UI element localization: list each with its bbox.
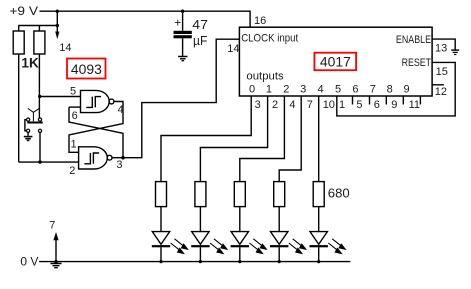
- svg-text:7: 7: [370, 84, 376, 96]
- svg-text:9: 9: [404, 84, 410, 96]
- svg-text:680: 680: [328, 186, 350, 201]
- svg-text:47: 47: [192, 17, 208, 32]
- svg-text:4093: 4093: [71, 61, 102, 77]
- svg-text:16: 16: [254, 15, 266, 27]
- svg-text:3: 3: [255, 99, 261, 111]
- svg-text:0 V: 0 V: [20, 254, 38, 268]
- svg-text:5: 5: [335, 84, 341, 96]
- svg-text:outputs: outputs: [246, 70, 284, 82]
- svg-text:3: 3: [300, 84, 306, 96]
- svg-text:2: 2: [283, 84, 289, 96]
- svg-text:ENABLE: ENABLE: [396, 34, 431, 46]
- svg-text:5: 5: [356, 99, 362, 111]
- svg-text:7: 7: [49, 219, 55, 231]
- svg-text:7: 7: [307, 99, 313, 111]
- svg-text:+9 V: +9 V: [9, 4, 38, 18]
- svg-text:2: 2: [69, 165, 75, 177]
- svg-text:4017: 4017: [320, 54, 351, 70]
- svg-text:8: 8: [387, 84, 393, 96]
- svg-text:+: +: [174, 16, 181, 30]
- svg-text:2: 2: [272, 99, 278, 111]
- svg-text:11: 11: [409, 99, 420, 111]
- svg-text:13: 13: [435, 43, 447, 55]
- svg-text:9: 9: [391, 99, 397, 111]
- svg-text:10: 10: [323, 99, 335, 111]
- svg-text:1: 1: [339, 99, 345, 111]
- svg-text:6: 6: [374, 99, 380, 111]
- svg-text:1: 1: [266, 84, 272, 96]
- svg-text:4: 4: [318, 84, 324, 96]
- svg-text:14: 14: [227, 43, 239, 55]
- svg-text:µF: µF: [193, 33, 207, 48]
- svg-text:4: 4: [289, 99, 295, 111]
- svg-text:6: 6: [352, 84, 358, 96]
- svg-text:1: 1: [71, 139, 77, 151]
- svg-text:12: 12: [435, 86, 447, 98]
- svg-text:1K: 1K: [21, 54, 38, 70]
- svg-text:3: 3: [116, 159, 122, 171]
- svg-text:CLOCK input: CLOCK input: [241, 33, 298, 45]
- svg-text:0: 0: [249, 84, 255, 96]
- svg-text:14: 14: [59, 42, 71, 54]
- svg-text:4: 4: [118, 104, 124, 116]
- svg-text:15: 15: [436, 66, 448, 78]
- svg-text:6: 6: [72, 110, 78, 122]
- svg-text:RESET: RESET: [402, 57, 432, 69]
- svg-text:5: 5: [70, 85, 76, 97]
